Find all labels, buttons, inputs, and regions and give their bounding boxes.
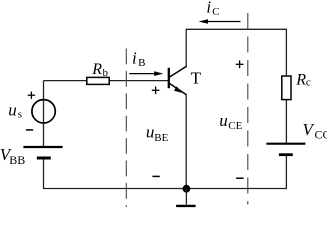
wire base horizontal (us top to transistor base) (44, 80, 169, 82)
battery VCC long plate (266, 143, 305, 145)
svg-text:b: b (103, 67, 109, 79)
resistor Rc body (282, 76, 291, 100)
battery VCC short plate (279, 153, 293, 156)
svg-text:u: u (8, 100, 16, 119)
svg-text:CE: CE (228, 120, 242, 132)
wire right rail upper (285, 29, 287, 143)
svg-text:T: T (191, 69, 202, 88)
svg-text:CC: CC (315, 128, 327, 142)
svg-text:R: R (295, 72, 306, 89)
transistor T emitter lead (169, 83, 186, 95)
wire left rail lower (battery to bottom) (43, 159, 45, 189)
resistor Rb body (87, 77, 109, 84)
current arrow iB head (154, 71, 163, 76)
svg-text:BE: BE (154, 132, 168, 144)
wire collector vertical (185, 29, 187, 67)
current arrow iB shaft (129, 73, 155, 75)
minus sign for uCE (236, 177, 244, 179)
battery VBB long plate (23, 146, 62, 148)
plus sign for us (28, 92, 35, 99)
plus sign for uBE (152, 87, 160, 95)
svg-text:u: u (146, 123, 155, 142)
svg-text:C: C (212, 6, 219, 18)
transistor T base bar (168, 68, 170, 88)
minus sign for uBE (152, 175, 159, 177)
wire left rail upper (through source circle) (43, 81, 45, 146)
svg-text:B: B (138, 57, 145, 69)
svg-text:i: i (206, 0, 211, 16)
ground stub wire (185, 189, 187, 205)
svg-text:i: i (132, 48, 137, 67)
ground bar (176, 205, 196, 207)
svg-text:BB: BB (9, 153, 25, 167)
wire top rail (186, 28, 287, 30)
svg-text:R: R (91, 61, 102, 78)
transistor T collector lead (169, 66, 186, 77)
wire right rail lower (285, 156, 287, 189)
wire bottom rail (43, 188, 287, 190)
source us circle (32, 100, 55, 123)
dashed boundary line left (125, 49, 127, 208)
transistor T emitter arrowhead (174, 86, 182, 93)
junction dot at emitter/ground node (183, 185, 191, 193)
svg-text:u: u (219, 111, 228, 130)
minus sign for us (26, 129, 33, 131)
plus sign for uCE (236, 60, 244, 68)
dashed boundary line right (247, 13, 249, 205)
svg-text:c: c (306, 76, 311, 88)
battery VBB short plate (37, 157, 51, 160)
current arrow iC shaft (206, 21, 241, 23)
current arrow iC head (199, 19, 209, 24)
svg-text:s: s (18, 108, 22, 120)
wire emitter vertical (185, 94, 187, 189)
